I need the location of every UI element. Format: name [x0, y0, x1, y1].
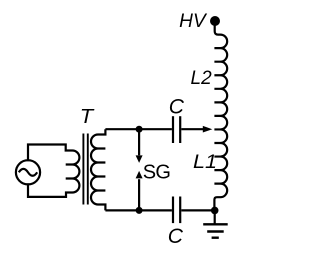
spark gap SG lower electrode wire	[138, 179, 140, 210]
capacitor C (bottom) left plate	[172, 197, 174, 224]
wire: bottom rail from capacitor to ground node	[181, 209, 214, 211]
transformer T core line 1	[82, 134, 84, 205]
wire: top rail from capacitor to coil tap arrow	[181, 128, 203, 130]
node: junction dot bottom rail / coil / ground	[211, 207, 219, 215]
node: junction dot top rail / spark gap	[136, 126, 143, 133]
arrowhead: coil tap arrow	[203, 126, 213, 133]
arrowhead: spark gap lower (pointing up)	[136, 171, 143, 179]
transformer secondary winding: 5 turns	[91, 129, 105, 210]
node HV terminal dot	[210, 16, 220, 26]
capacitor C (top) left plate	[172, 116, 174, 143]
AC source sine symbol	[19, 169, 37, 176]
svg-text:HV: HV	[179, 11, 208, 32]
AC source G1 circle	[16, 160, 40, 184]
svg-text:L2: L2	[191, 68, 213, 89]
wire + transformer primary winding: AC top lead, 3 turns, AC bottom lead	[28, 145, 79, 197]
svg-text:T: T	[80, 105, 95, 128]
transformer T core line 2	[87, 134, 89, 205]
node: junction dot bottom rail / spark gap	[136, 207, 143, 214]
svg-text:C: C	[168, 225, 184, 248]
svg-text:C: C	[169, 95, 185, 118]
ground symbol bar 1	[203, 223, 228, 225]
svg-text:L1: L1	[193, 152, 217, 173]
inductor L2 (7 turns) and L1 (5 turns) coil	[214, 23, 227, 210]
svg-text:SG: SG	[143, 162, 171, 184]
wire: ground node to ground symbol	[214, 210, 216, 224]
ground symbol bar 3	[212, 236, 219, 238]
capacitor C (bottom) right plate	[179, 197, 181, 224]
capacitor C (top) right plate	[179, 116, 181, 143]
wire: top rail from secondary to capacitor	[105, 128, 171, 130]
spark gap SG upper electrode wire	[138, 130, 140, 155]
arrowhead: spark gap upper (pointing down)	[136, 155, 143, 163]
wire: bottom rail from secondary to capacitor	[105, 209, 171, 211]
ground symbol bar 2	[207, 230, 224, 232]
